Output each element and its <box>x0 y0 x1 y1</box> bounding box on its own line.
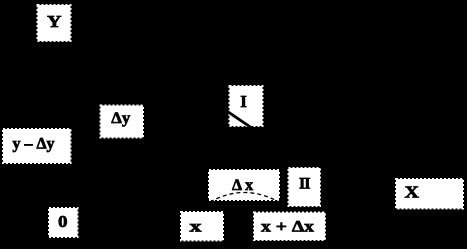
node x label box <box>181 212 223 241</box>
svg-text:II: II <box>299 176 310 193</box>
wire: curve segment crossing box I <box>226 111 254 130</box>
node x + Δx label box <box>254 213 325 241</box>
svg-text:I: I <box>240 92 247 111</box>
svg-text:y – Δy: y – Δy <box>13 136 55 153</box>
node y − Δy label box <box>3 129 71 163</box>
svg-text:X: X <box>405 183 420 202</box>
node Δx label box <box>209 170 279 202</box>
svg-text:Δ x: Δ x <box>232 177 253 194</box>
node 0 (origin label box) <box>49 208 78 237</box>
svg-text:x + Δx: x + Δx <box>261 219 314 236</box>
svg-text:Y: Y <box>47 12 62 31</box>
region I label box <box>226 86 263 130</box>
svg-text:Δy: Δy <box>111 110 130 127</box>
node Y (y-axis label box) <box>38 5 71 41</box>
node X (x-axis label box) <box>396 179 463 209</box>
wire: dashed arc crossing Δx box <box>210 193 279 203</box>
region II label box <box>289 168 321 206</box>
node Δy label box <box>101 106 144 138</box>
svg-text:0: 0 <box>58 212 68 231</box>
svg-text:x: x <box>190 219 202 236</box>
